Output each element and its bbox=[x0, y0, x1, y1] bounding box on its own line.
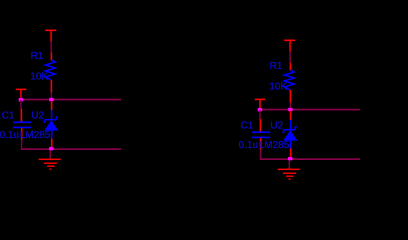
capacitor C1 pin 1 (right) bbox=[260, 119, 262, 131]
wire horizontal bottom net (right) bbox=[260, 158, 360, 160]
capacitor C1 bottom plate (right) bbox=[252, 137, 270, 139]
wire VCC to R1 (left) bbox=[50, 42, 51, 53]
junction node R1/C1/U2 (left) bbox=[49, 98, 54, 101]
wire R1 to node (right) bbox=[290, 103, 291, 110]
wire horizontal top net (left) bbox=[21, 99, 121, 101]
diode U2 anode lead (left) bbox=[51, 131, 53, 139]
svg-text:R1: R1 bbox=[31, 51, 44, 62]
power symbol VCC bar (left) bbox=[45, 30, 56, 42]
junction node at ground net (right) bbox=[288, 157, 293, 160]
resistor R1 pin 1 (left) bbox=[51, 53, 53, 61]
diode U2 cathode bar with zener hooks (right) bbox=[282, 127, 297, 132]
svg-text:0.1u: 0.1u bbox=[239, 140, 258, 151]
ground symbol (left) bbox=[39, 159, 61, 170]
svg-text:10K: 10K bbox=[269, 82, 287, 93]
diode U2 pin 1 top (right) bbox=[290, 111, 292, 120]
capacitor C1 bottom plate (left) bbox=[13, 127, 31, 129]
resistor R1 pin 2 (left) bbox=[51, 80, 53, 93]
diode U2 pin 2 bottom (left) bbox=[51, 139, 53, 148]
power symbol above C1 (left) bbox=[16, 89, 27, 99]
wire VCC to R1 (right) bbox=[289, 52, 290, 63]
wire node to C1 (left) bbox=[20, 100, 21, 109]
capacitor C1 top plate (left) bbox=[13, 121, 31, 123]
junction node at C1 branch (left) bbox=[19, 98, 24, 102]
wire horizontal bottom net (left) bbox=[21, 148, 121, 150]
diode U2 cathode bar with zener hooks (left) bbox=[43, 117, 58, 122]
diode U2 pin 1 top (left) bbox=[51, 101, 53, 110]
diode U2 anode lead (right) bbox=[290, 141, 292, 149]
diode U2 cathode lead (left) bbox=[51, 110, 53, 119]
diode U2 anode triangle (left) bbox=[44, 120, 58, 130]
diode U2 pin 2 bottom (right) bbox=[290, 149, 292, 158]
svg-text:R1: R1 bbox=[270, 61, 283, 72]
resistor R1 body (right) bbox=[284, 70, 294, 90]
resistor R1 pin 2 (right) bbox=[290, 90, 292, 103]
diode U2 anode triangle (right) bbox=[283, 130, 297, 140]
power symbol above C1 (right) bbox=[255, 99, 266, 109]
power symbol VCC bar (right) bbox=[284, 40, 295, 52]
capacitor C1 pin 2 (right) bbox=[260, 138, 262, 149]
wire R1 to node (left) bbox=[51, 93, 52, 100]
junction node R1/C1/U2 (right) bbox=[288, 108, 293, 111]
resistor R1 pin 1 (right) bbox=[290, 63, 292, 71]
svg-text:10K: 10K bbox=[30, 72, 48, 83]
junction node at C1 branch (right) bbox=[258, 108, 263, 112]
svg-text:LM285: LM285 bbox=[259, 140, 290, 151]
wire node to ground (left) bbox=[50, 150, 51, 159]
wire horizontal top net (right) bbox=[260, 109, 360, 111]
svg-text:0.1u: 0.1u bbox=[0, 130, 19, 141]
diode U2 cathode lead (right) bbox=[290, 120, 292, 129]
wire C1 to bottom net corner (left) bbox=[21, 140, 22, 150]
svg-text:LM285: LM285 bbox=[20, 130, 51, 141]
svg-text:C1: C1 bbox=[2, 111, 15, 122]
capacitor C1 top plate (right) bbox=[252, 131, 270, 133]
wire C1 to bottom net corner (right) bbox=[260, 150, 261, 160]
wire node to ground (right) bbox=[289, 160, 290, 169]
resistor R1 body (left) bbox=[45, 60, 55, 80]
capacitor C1 pin 1 (left) bbox=[21, 109, 23, 122]
svg-text:U2: U2 bbox=[270, 121, 283, 132]
junction node at ground net (left) bbox=[49, 147, 54, 150]
svg-text:U2: U2 bbox=[31, 111, 44, 122]
svg-text:C1: C1 bbox=[241, 121, 254, 132]
ground symbol (right) bbox=[278, 169, 300, 180]
wire node to C1 (right) bbox=[259, 110, 260, 119]
capacitor C1 pin 2 (left) bbox=[21, 128, 23, 139]
